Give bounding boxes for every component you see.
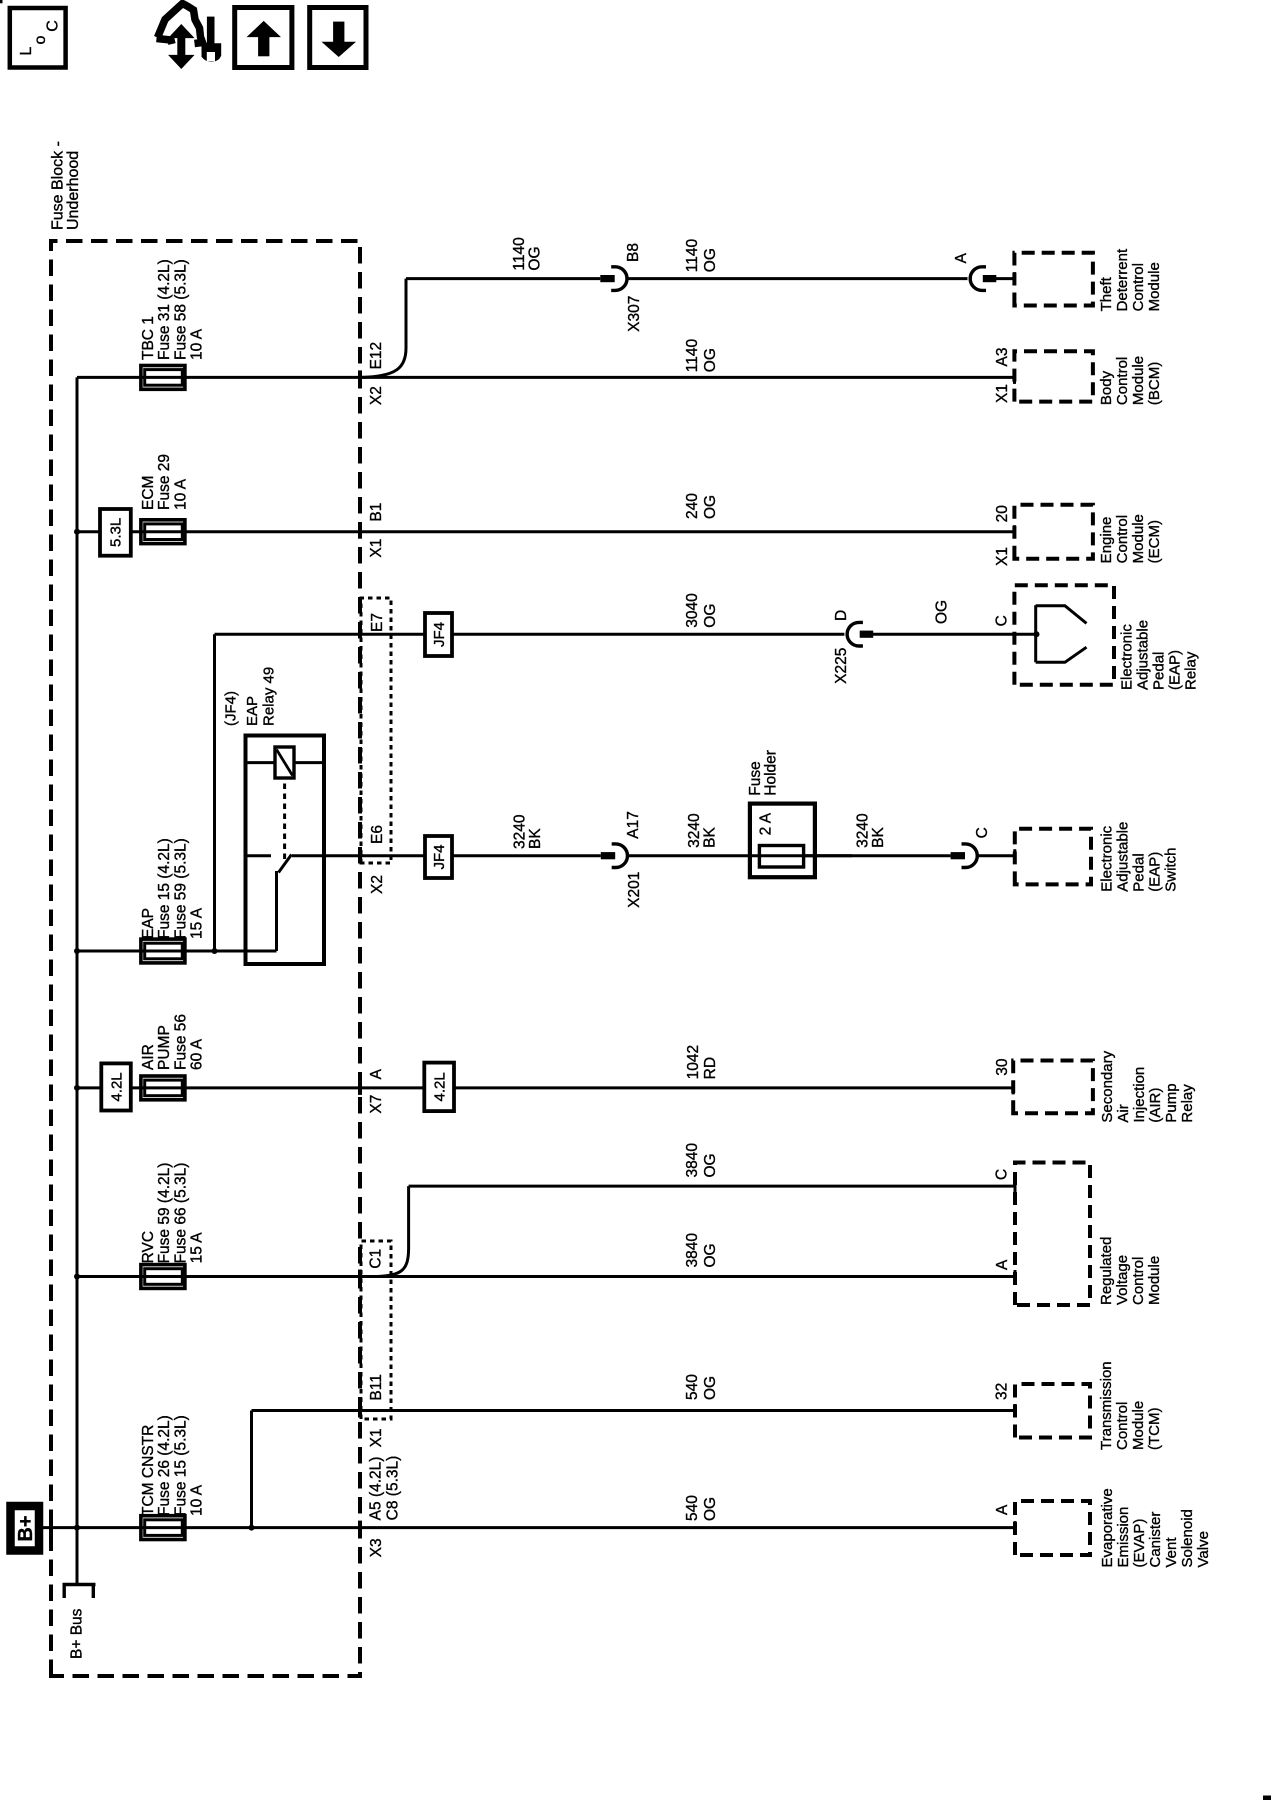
fuse EAP Fuse 15/59 15A	[141, 939, 185, 963]
wire 1140 OG to X307	[406, 277, 600, 280]
module terminal tick	[1013, 371, 1016, 384]
wire B+ bus bar	[76, 377, 79, 1584]
svg-text:1140: 1140	[684, 238, 701, 272]
svg-text:Module: Module	[1130, 514, 1147, 563]
connector pass-through box C1/B11	[361, 1241, 391, 1419]
connector A at theft module	[970, 267, 986, 291]
svg-text:540: 540	[684, 1495, 701, 1521]
junction bus/RVC	[74, 1274, 80, 1280]
svg-text:X1: X1	[994, 384, 1011, 403]
svg-text:Fuse 31 (4.2L): Fuse 31 (4.2L)	[156, 259, 173, 360]
wire TBC fuse output to BCM	[77, 376, 1014, 379]
svg-text:Electronic: Electronic	[1119, 624, 1136, 690]
relay coil line	[248, 761, 323, 764]
svg-text:L: L	[18, 47, 35, 56]
relay movable arm	[279, 855, 292, 873]
svg-text:Regulated: Regulated	[1098, 1237, 1115, 1305]
svg-text:Fuse 66 (5.3L): Fuse 66 (5.3L)	[172, 1163, 189, 1264]
icon previous page (arrow)	[310, 8, 366, 68]
fuse RVC Fuse 59/66 15A	[141, 1265, 185, 1289]
svg-text:A: A	[368, 1068, 385, 1079]
svg-text:E7: E7	[369, 613, 386, 632]
junction bus/AIR	[74, 1085, 80, 1091]
svg-text:OG: OG	[702, 495, 719, 519]
svg-text:Secondary: Secondary	[1099, 1050, 1116, 1122]
svg-text:Fuse Block -: Fuse Block -	[50, 141, 67, 230]
svg-text:Module: Module	[1130, 356, 1147, 405]
svg-text:1042: 1042	[685, 1045, 702, 1079]
svg-text:E12: E12	[368, 342, 385, 370]
svg-text:RVC: RVC	[140, 1231, 157, 1263]
tag 5.3L engine variant	[100, 509, 131, 556]
junction EAP fuse wire / E7 branch	[212, 948, 218, 954]
svg-text:Underhood: Underhood	[65, 151, 82, 230]
svg-text:Emission: Emission	[1115, 1507, 1132, 1568]
wrench	[207, 17, 215, 44]
svg-text:JF4: JF4	[431, 622, 448, 647]
module terminal tick	[1014, 1521, 1017, 1534]
wire branch EVAP to TCM	[250, 1411, 253, 1528]
svg-text:Switch: Switch	[1163, 848, 1180, 892]
wire 1140 OG to theft module	[628, 277, 968, 280]
svg-text:Control: Control	[1130, 1257, 1147, 1305]
inline connector X201 terminal A17	[601, 852, 615, 859]
block edge crossing dash A	[358, 1081, 362, 1095]
relay actuator dashed link	[283, 778, 286, 859]
fuse 2A in holder	[759, 846, 803, 868]
svg-text:C8 (5.3L): C8 (5.3L)	[385, 1456, 402, 1521]
module terminal tick	[1013, 272, 1016, 285]
svg-text:Fuse 26 (4.2L): Fuse 26 (4.2L)	[156, 1415, 173, 1516]
svg-text:BK: BK	[702, 826, 719, 847]
module electronic adjustable pedal switch	[1015, 829, 1091, 885]
svg-text:Pedal: Pedal	[1131, 853, 1148, 891]
svg-text:A: A	[994, 1504, 1011, 1515]
double arrow	[177, 34, 185, 58]
svg-text:20: 20	[994, 505, 1011, 523]
module body control BCM	[1014, 351, 1093, 401]
svg-text:(EAP): (EAP)	[1167, 650, 1184, 690]
svg-text:Deterrent: Deterrent	[1114, 248, 1131, 311]
svg-text:60 A: 60 A	[189, 1038, 206, 1070]
svg-text:3840: 3840	[684, 1143, 701, 1178]
relay coil	[275, 747, 294, 778]
svg-text:X3: X3	[368, 1538, 385, 1557]
wire OG X225 to EAP relay module	[873, 633, 1037, 636]
svg-text:TBC 1: TBC 1	[140, 316, 157, 360]
inline connector X225 terminal D	[847, 622, 863, 646]
svg-text:X7: X7	[368, 1095, 385, 1114]
svg-text:OG: OG	[934, 600, 951, 624]
svg-text:Fuse 15 (4.2L): Fuse 15 (4.2L)	[156, 838, 173, 939]
junction bus/EAP	[74, 948, 80, 954]
svg-text:C: C	[994, 1169, 1011, 1180]
wire AIR pump fuse output 1042 RD	[77, 1086, 1013, 1089]
block edge crossing dash X3	[358, 1521, 362, 1535]
B+ bus end bracket	[63, 1583, 96, 1586]
block edge crossing dash E12	[358, 370, 362, 384]
svg-text:C1: C1	[368, 1249, 385, 1269]
block edge crossing dash B11	[358, 1404, 362, 1418]
svg-text:Module: Module	[1146, 262, 1163, 311]
svg-text:(TCM): (TCM)	[1146, 1408, 1163, 1450]
inline connector X307 terminal B8	[600, 275, 614, 282]
module terminal tick	[1013, 525, 1016, 538]
icon next page (arrow)	[235, 8, 292, 68]
svg-text:Valve: Valve	[1195, 1531, 1212, 1567]
EAP relay module internal contact	[1034, 605, 1037, 662]
svg-text:A: A	[953, 252, 970, 263]
svg-text:10 A: 10 A	[189, 328, 206, 360]
svg-text:Module: Module	[1146, 1256, 1163, 1305]
svg-text:Fuse 56: Fuse 56	[172, 1014, 189, 1070]
wire 3840 OG branch to pin C	[409, 1185, 1015, 1188]
svg-text:X1: X1	[994, 547, 1011, 566]
module transmission control TCM	[1015, 1384, 1090, 1438]
svg-text:OG: OG	[702, 604, 719, 628]
icon LOC box	[10, 8, 66, 68]
svg-text:(BCM): (BCM)	[1146, 362, 1163, 405]
block edge crossing dash E6	[358, 849, 362, 863]
svg-text:OG: OG	[527, 246, 544, 270]
svg-text:Vent: Vent	[1163, 1537, 1180, 1568]
fuse ECM Fuse 29 10A	[141, 520, 185, 544]
svg-text:Pump: Pump	[1163, 1083, 1180, 1122]
svg-text:OG: OG	[702, 348, 719, 372]
svg-text:B1: B1	[368, 503, 385, 522]
svg-text:Control: Control	[1114, 515, 1131, 563]
junction bus/ECM	[74, 529, 80, 535]
svg-text:(ECM): (ECM)	[1146, 520, 1163, 563]
module electronic adjustable pedal relay	[1014, 585, 1114, 685]
svg-text:A17: A17	[625, 811, 642, 839]
svg-text:Canister: Canister	[1147, 1512, 1164, 1568]
module terminal tick	[1014, 1180, 1017, 1193]
svg-text:Relay: Relay	[1183, 651, 1200, 690]
svg-text:Relay: Relay	[1179, 1084, 1196, 1123]
svg-text:Body: Body	[1098, 370, 1115, 405]
module regulated voltage control	[1015, 1163, 1090, 1306]
svg-text:30: 30	[994, 1058, 1011, 1076]
wire into EAP switch module	[978, 854, 1015, 857]
svg-text:(EAP): (EAP)	[1147, 852, 1164, 892]
svg-text:3240: 3240	[855, 813, 872, 848]
svg-text:Adjustable: Adjustable	[1135, 620, 1152, 690]
svg-text:OG: OG	[702, 1153, 719, 1177]
svg-text:OG: OG	[702, 1497, 719, 1521]
svg-text:Control: Control	[1114, 1402, 1131, 1450]
svg-text:Fuse 59 (4.2L): Fuse 59 (4.2L)	[156, 1163, 173, 1264]
svg-text:X225: X225	[833, 648, 850, 684]
svg-text:Pedal: Pedal	[1151, 652, 1168, 690]
svg-text:3040: 3040	[684, 593, 701, 628]
junction EVAP/TCM branch	[249, 1525, 255, 1531]
svg-text:X2: X2	[369, 875, 386, 894]
svg-text:ECM: ECM	[140, 476, 157, 510]
svg-text:Theft: Theft	[1098, 276, 1115, 311]
svg-text:EAP: EAP	[244, 696, 261, 726]
svg-text:Fuse 29: Fuse 29	[156, 454, 173, 510]
svg-text:Module: Module	[1130, 1401, 1147, 1450]
svg-text:Electronic: Electronic	[1099, 825, 1116, 891]
svg-text:Injection: Injection	[1131, 1067, 1148, 1123]
block edge crossing dash at B+ wire	[49, 1521, 53, 1535]
svg-text:1140: 1140	[511, 237, 528, 271]
fuse TBC 1 Fuse 31/58 10A	[141, 366, 185, 390]
svg-text:OG: OG	[702, 1243, 719, 1267]
module secondary air injection pump relay	[1013, 1061, 1093, 1114]
wire branch to theft deterrent	[362, 279, 406, 378]
module terminal tick	[1014, 1270, 1017, 1283]
svg-text:RD: RD	[702, 1057, 719, 1079]
module terminal tick	[1014, 1404, 1017, 1417]
wire 3040 OG E7 to X225	[215, 633, 845, 636]
tag 4.2L on AIR wire	[424, 1063, 454, 1112]
connector C at EAP switch	[951, 852, 965, 859]
relay common line	[275, 871, 278, 951]
svg-text:X201: X201	[626, 872, 643, 908]
svg-text:JF4: JF4	[431, 844, 448, 869]
svg-text:D: D	[833, 610, 850, 621]
svg-text:B+: B+	[15, 1515, 37, 1541]
svg-text:5.3L: 5.3L	[108, 518, 125, 547]
svg-text:X1: X1	[368, 1428, 385, 1447]
svg-text:BK: BK	[527, 828, 544, 849]
wire branch to E7	[213, 634, 216, 951]
svg-text:2 A: 2 A	[758, 812, 775, 835]
svg-text:Transmission: Transmission	[1098, 1361, 1115, 1450]
junction in EAP relay module	[1034, 631, 1040, 637]
svg-text:OG: OG	[702, 1376, 719, 1400]
svg-text:Evaporative: Evaporative	[1099, 1488, 1116, 1567]
svg-text:15 A: 15 A	[189, 907, 206, 939]
module terminal tick	[1012, 1081, 1015, 1094]
svg-text:Engine: Engine	[1098, 517, 1115, 564]
svg-text:540: 540	[684, 1374, 701, 1400]
block edge crossing dash C1	[358, 1270, 362, 1284]
module theft deterrent control	[1014, 253, 1093, 306]
svg-text:EAP: EAP	[140, 908, 157, 939]
wire 3240 BK relay to X201	[292, 854, 601, 857]
svg-text:4.2L: 4.2L	[431, 1072, 448, 1101]
page number mark	[1263, 1796, 1271, 1800]
svg-text:Fuse 15 (5.3L): Fuse 15 (5.3L)	[172, 1415, 189, 1516]
svg-text:Control: Control	[1130, 263, 1147, 311]
svg-text:A: A	[994, 1259, 1011, 1270]
fuse AIR PUMP Fuse 56 60A	[141, 1076, 185, 1100]
fuse block underhood dashed border	[51, 241, 360, 1676]
page corner mark	[0, 0, 3, 3]
wire 3240 BK fuse holder to EAP switch	[804, 854, 951, 857]
tag JF4 on EAP switch wire	[425, 836, 452, 878]
svg-text:o: o	[32, 36, 49, 45]
fuse TCM CNSTR Fuse 26/15 10A	[141, 1516, 185, 1540]
svg-text:OG: OG	[702, 248, 719, 272]
svg-text:10 A: 10 A	[172, 478, 189, 510]
svg-text:Fuse 58 (5.3L): Fuse 58 (5.3L)	[172, 259, 189, 360]
svg-text:TCM CNSTR: TCM CNSTR	[140, 1425, 157, 1516]
svg-text:Adjustable: Adjustable	[1115, 822, 1132, 892]
wire EAP fuse to relay switch	[77, 950, 277, 953]
wire RVC fuse output 3840 OG	[77, 1275, 1015, 1278]
B+ terminal box	[11, 1506, 40, 1551]
svg-text:(AIR): (AIR)	[1147, 1088, 1164, 1123]
svg-text:C: C	[974, 827, 991, 838]
svg-text:4.2L: 4.2L	[108, 1072, 125, 1101]
junction bus/EVAP	[74, 1525, 80, 1531]
svg-text:E6: E6	[369, 825, 386, 844]
svg-text:15 A: 15 A	[189, 1232, 206, 1264]
svg-text:BK: BK	[870, 826, 887, 847]
icon vehicle hood outline with arrows and wrench	[158, 4, 203, 44]
svg-text:(EVAP): (EVAP)	[1131, 1519, 1148, 1568]
relay EAP Relay 49 box	[246, 736, 325, 965]
svg-text:B+ Bus: B+ Bus	[69, 1608, 86, 1659]
svg-text:3840: 3840	[684, 1233, 701, 1268]
connector pass-through box E7/E6	[361, 598, 391, 863]
svg-text:Control: Control	[1114, 357, 1131, 405]
svg-text:Solenoid: Solenoid	[1179, 1509, 1196, 1567]
svg-text:A5 (4.2L): A5 (4.2L)	[368, 1457, 385, 1521]
svg-text:Voltage: Voltage	[1114, 1255, 1131, 1305]
svg-text:X2: X2	[368, 386, 385, 405]
svg-text:Fuse: Fuse	[747, 761, 764, 795]
wire branch to RVC module pin C	[377, 1186, 409, 1276]
module engine control ECM	[1014, 505, 1093, 559]
tag 4.2L engine variant	[101, 1063, 131, 1110]
svg-text:(JF4): (JF4)	[223, 691, 240, 726]
svg-text:B11: B11	[368, 1374, 385, 1400]
svg-text:Fuse 59 (5.3L): Fuse 59 (5.3L)	[172, 838, 189, 939]
block edge crossing dash B1	[358, 525, 362, 539]
svg-text:10 A: 10 A	[189, 1484, 206, 1516]
svg-text:1140: 1140	[684, 338, 701, 372]
svg-text:Holder: Holder	[763, 750, 780, 796]
svg-text:C: C	[45, 20, 62, 32]
svg-text:X1: X1	[368, 539, 385, 558]
svg-text:Relay 49: Relay 49	[261, 667, 278, 726]
svg-text:Air: Air	[1115, 1104, 1132, 1122]
svg-text:3240: 3240	[686, 813, 703, 848]
wire 540 OG B+ to EVAP valve	[41, 1526, 1016, 1529]
wire 540 OG to TCM	[252, 1409, 1016, 1412]
svg-text:240: 240	[684, 493, 701, 519]
svg-text:PUMP: PUMP	[156, 1025, 173, 1070]
module EVAP canister vent solenoid valve	[1015, 1501, 1090, 1555]
svg-text:AIR: AIR	[140, 1044, 157, 1070]
tag JF4 on E7 wire	[425, 613, 452, 656]
module terminal tick	[1013, 849, 1016, 862]
fuse holder box	[750, 804, 815, 878]
svg-text:B8: B8	[625, 243, 642, 262]
svg-text:X307: X307	[626, 296, 643, 332]
svg-text:C: C	[994, 615, 1011, 626]
wire ECM fuse output 240 OG	[77, 530, 1014, 533]
wire into theft module	[994, 277, 1014, 280]
wire 3240 BK to fuse holder	[627, 854, 852, 857]
svg-text:A3: A3	[994, 348, 1011, 367]
relay fixed contact stub	[248, 854, 272, 857]
svg-text:32: 32	[994, 1383, 1011, 1400]
svg-text:3240: 3240	[512, 814, 529, 849]
